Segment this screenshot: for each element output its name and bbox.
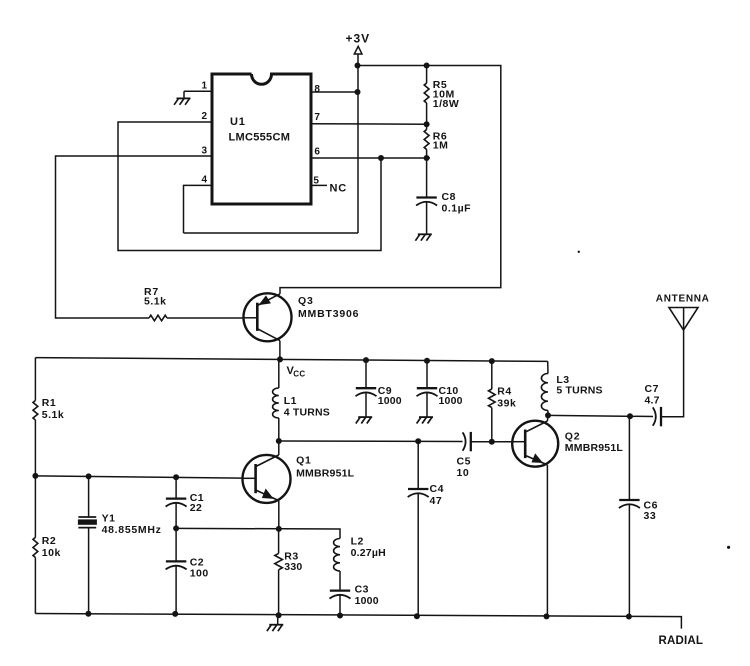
svg-text:0.1µF: 0.1µF <box>442 203 472 215</box>
svg-text:100: 100 <box>190 568 209 580</box>
svg-text:MMBR951L: MMBR951L <box>296 467 355 479</box>
svg-text:1: 1 <box>201 81 207 92</box>
svg-text:2: 2 <box>201 111 207 122</box>
svg-text:Q2: Q2 <box>565 430 581 442</box>
svg-text:1000: 1000 <box>378 395 402 407</box>
svg-text:1000: 1000 <box>439 395 463 407</box>
svg-text:Y1: Y1 <box>102 513 116 525</box>
svg-text:C5: C5 <box>457 455 471 467</box>
svg-text:L1: L1 <box>284 395 297 407</box>
svg-text:1/8W: 1/8W <box>433 98 460 110</box>
svg-text:10k: 10k <box>42 547 61 559</box>
svg-text:C3: C3 <box>355 583 369 595</box>
svg-text:U1: U1 <box>230 116 246 128</box>
svg-text:5 TURNS: 5 TURNS <box>556 384 602 396</box>
svg-text:39k: 39k <box>497 397 516 409</box>
svg-text:R2: R2 <box>42 535 56 547</box>
svg-text:MMBR951L: MMBR951L <box>565 442 624 454</box>
svg-text:C4: C4 <box>430 483 444 495</box>
svg-text:R4: R4 <box>497 386 511 398</box>
svg-text:330: 330 <box>284 561 302 573</box>
svg-text:C8: C8 <box>442 191 456 203</box>
svg-text:0.27µH: 0.27µH <box>351 547 386 559</box>
svg-text:NC: NC <box>330 183 348 195</box>
svg-text:1M: 1M <box>433 140 449 152</box>
svg-text:8: 8 <box>314 84 320 95</box>
svg-text:+3V: +3V <box>346 32 371 46</box>
svg-text:22: 22 <box>190 502 203 514</box>
svg-text:10: 10 <box>457 467 470 479</box>
svg-text:Q3: Q3 <box>298 295 314 307</box>
svg-text:4.7: 4.7 <box>645 395 660 407</box>
svg-text:MMBT3906: MMBT3906 <box>298 308 359 320</box>
svg-text:Q1: Q1 <box>296 454 312 466</box>
svg-text:7: 7 <box>314 112 320 123</box>
svg-text:6: 6 <box>314 147 320 158</box>
svg-text:4 TURNS: 4 TURNS <box>284 406 330 418</box>
svg-text:C7: C7 <box>645 383 659 395</box>
svg-text:LMC555CM: LMC555CM <box>229 131 291 143</box>
svg-text:R1: R1 <box>42 397 56 409</box>
svg-text:5.1k: 5.1k <box>42 409 64 421</box>
svg-text:L2: L2 <box>351 535 364 547</box>
svg-text:1000: 1000 <box>355 595 379 607</box>
svg-text:33: 33 <box>644 510 657 522</box>
svg-text:48.855MHz: 48.855MHz <box>102 524 162 536</box>
svg-text:CC: CC <box>293 370 305 379</box>
svg-text:47: 47 <box>430 495 443 507</box>
svg-text:3: 3 <box>201 146 207 157</box>
svg-text:5.1k: 5.1k <box>144 296 166 308</box>
svg-text:5: 5 <box>313 175 319 186</box>
svg-text:RADIAL: RADIAL <box>659 635 704 647</box>
svg-text:ANTENNA: ANTENNA <box>656 293 710 304</box>
svg-text:4: 4 <box>201 175 207 186</box>
